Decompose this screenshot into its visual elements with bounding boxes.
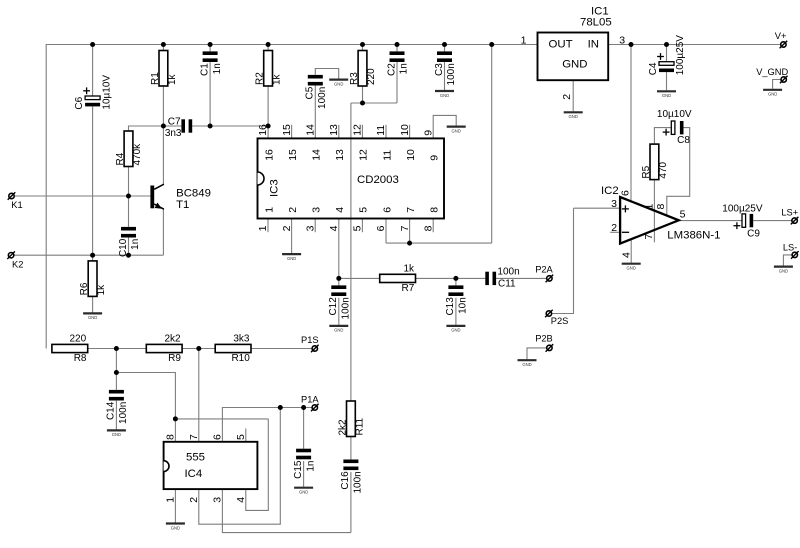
ground at IC3 pin 9 <box>447 127 466 134</box>
node P2S terminal <box>545 310 568 326</box>
node B junction R8/R9 <box>114 346 119 351</box>
node junction C6/R6/K2 <box>90 253 95 258</box>
svg-text:16: 16 <box>263 149 275 161</box>
svg-text:C13: C13 <box>445 297 456 316</box>
resistor R7 1k <box>380 263 416 294</box>
svg-text:R11: R11 <box>355 417 366 435</box>
wire C4 top <box>666 45 668 62</box>
svg-text:GND: GND <box>287 256 296 261</box>
svg-text:GND: GND <box>627 266 636 271</box>
node junction C6/V+ rail <box>90 42 95 47</box>
svg-text:8: 8 <box>655 204 667 210</box>
svg-text:1k: 1k <box>96 284 107 296</box>
svg-text:GND: GND <box>562 59 587 71</box>
svg-text:GND: GND <box>451 328 460 333</box>
wire IC3 pin 15 stub <box>291 125 293 139</box>
svg-text:15: 15 <box>287 149 299 161</box>
wire IC3 pin 5 stub <box>361 219 363 233</box>
capacitor C11 100n <box>485 266 519 289</box>
wire C5 bottom to IC3 pin 14 <box>314 85 316 138</box>
svg-text:7: 7 <box>399 225 411 231</box>
wire V+ rail from top-left corner to IC1 pin 1 <box>46 45 537 349</box>
svg-text:1k: 1k <box>272 73 283 85</box>
capacitor C2 1n <box>386 51 409 76</box>
wire IC3 pin 12 stub <box>361 125 363 139</box>
wire C5 top to ground elbow <box>315 69 338 79</box>
node junction R2/V+ rail <box>266 42 271 47</box>
op-amp U IC1 78L05 regulator <box>538 6 612 81</box>
node junction R7/C13/C11 <box>453 276 458 281</box>
node junction R1/V+ rail <box>161 42 166 47</box>
svg-text:1k: 1k <box>403 263 415 274</box>
wire P2B to ground <box>527 348 546 359</box>
svg-text:R5: R5 <box>641 165 652 178</box>
svg-text:6: 6 <box>375 225 387 231</box>
ground at C12 <box>329 326 348 333</box>
svg-text:2: 2 <box>561 94 573 100</box>
svg-text:1: 1 <box>263 207 275 213</box>
svg-text:R3: R3 <box>349 72 360 85</box>
wire IC3 pin 4 down to R7 node <box>338 219 340 286</box>
node B2 junction C14 <box>114 370 119 375</box>
wire C12 bottom to ground <box>338 298 340 325</box>
wire IC2 pin 3 input <box>574 207 621 209</box>
node junction R3/V+ rail <box>360 42 365 47</box>
wire R7 line left <box>339 277 380 279</box>
svg-text:GND: GND <box>452 128 461 133</box>
svg-text:IC4: IC4 <box>185 468 203 480</box>
svg-text:555: 555 <box>186 452 205 464</box>
svg-text:12: 12 <box>352 124 364 136</box>
svg-text:GND: GND <box>440 93 449 98</box>
svg-text:P2A: P2A <box>535 264 553 274</box>
transistor T1 BC849 <box>150 184 211 211</box>
node junction C7/R1/R4/collector <box>161 124 166 129</box>
pin 1 label of IC1 <box>521 35 527 47</box>
wire R9 to node C <box>182 348 199 350</box>
svg-text:15: 15 <box>281 124 293 136</box>
wire R6 top <box>92 255 94 261</box>
svg-text:100n: 100n <box>497 266 519 277</box>
svg-text:220: 220 <box>366 68 377 85</box>
wire node B down <box>115 349 117 373</box>
wire IC3 pin 7 down <box>409 219 411 244</box>
wire IC3 pin 10 stub <box>409 125 411 139</box>
svg-text:470: 470 <box>658 161 669 178</box>
wire C4 bottom to ground <box>666 72 668 90</box>
svg-text:GND: GND <box>522 362 531 367</box>
svg-text:C9: C9 <box>747 229 760 240</box>
node junction C1/V+ rail <box>208 42 213 47</box>
svg-text:GND: GND <box>779 268 788 273</box>
svg-text:4: 4 <box>334 207 346 213</box>
svg-text:1k: 1k <box>167 73 178 85</box>
svg-text:8: 8 <box>422 225 434 231</box>
capacitor C15 1n <box>293 449 316 479</box>
wire IC3 pin 1 stub <box>267 219 269 233</box>
svg-text:2k2: 2k2 <box>164 333 181 344</box>
node K1 terminal <box>8 192 23 210</box>
svg-text:3n3: 3n3 <box>165 128 182 139</box>
wire R3 bottom to node A <box>362 86 364 103</box>
svg-text:GND: GND <box>569 114 578 119</box>
svg-text:12: 12 <box>358 149 370 161</box>
svg-text:R8: R8 <box>74 353 87 364</box>
svg-text:IC3: IC3 <box>268 179 280 197</box>
wire R8 to node B <box>88 348 117 350</box>
wire node B to R9 <box>116 348 146 350</box>
svg-text:IN: IN <box>588 38 599 50</box>
node A junction R3/C2/beep <box>360 101 365 106</box>
wire IC3 pin 13 stub <box>338 125 340 139</box>
svg-text:9: 9 <box>429 155 441 161</box>
svg-text:100n: 100n <box>118 402 129 424</box>
wire node A horizontal <box>351 102 397 104</box>
svg-text:3: 3 <box>611 198 617 210</box>
node V+ terminal <box>775 31 787 48</box>
wire pins 4/8 net horizontal <box>175 418 268 420</box>
op-amp U IC2 LM386N-1 <box>601 185 720 258</box>
svg-text:470k: 470k <box>132 143 143 166</box>
wire IC2 pin 6 supply <box>630 45 632 203</box>
svg-text:10: 10 <box>405 149 417 161</box>
svg-text:R4: R4 <box>115 152 126 165</box>
svg-text:7: 7 <box>188 434 200 440</box>
wire C2 top <box>396 45 398 52</box>
capacitor C4 100u25V electrolytic <box>648 35 686 76</box>
svg-text:9: 9 <box>422 130 434 136</box>
svg-text:R6: R6 <box>79 282 90 295</box>
wire C14 bottom to ground <box>115 401 117 430</box>
node junction C1 bottom <box>208 124 213 129</box>
svg-text:5: 5 <box>352 225 364 231</box>
wire IC3 pin 2 to ground <box>291 219 293 254</box>
capacitor C14 100n <box>106 390 129 424</box>
wire C7 line right to pin 16 node <box>192 125 268 127</box>
wire pins 4/8 net right leg <box>246 419 268 511</box>
svg-text:11: 11 <box>375 125 387 136</box>
svg-text:GND: GND <box>112 432 121 437</box>
svg-text:6: 6 <box>620 190 632 196</box>
wire R4 top elbow to node C7 <box>129 126 164 131</box>
wire IC3 pin 8 stub <box>432 219 434 233</box>
wire IC1 pin 2 to ground <box>572 80 574 111</box>
wire C8 right to IC2 pin 8 <box>667 128 690 216</box>
op-amp U IC4 555 timer <box>164 434 258 503</box>
svg-text:P1S: P1S <box>301 335 319 345</box>
svg-text:C4: C4 <box>648 62 659 75</box>
wire C1 bottom to C7 line <box>209 62 211 126</box>
ground at IC2 pin 4 <box>622 264 641 271</box>
svg-text:C3: C3 <box>434 63 445 76</box>
svg-text:C2: C2 <box>386 63 397 76</box>
svg-text:GND: GND <box>334 81 343 86</box>
svg-text:5: 5 <box>235 434 247 440</box>
ground at C14 <box>107 430 126 437</box>
svg-text:6: 6 <box>212 434 224 440</box>
ground at C15 <box>294 488 313 495</box>
svg-text:K1: K1 <box>11 200 22 210</box>
svg-text:GND: GND <box>768 92 777 97</box>
ground at C5 <box>329 80 348 87</box>
wire node C to R10 <box>199 348 215 350</box>
node junction C15/P1A <box>301 405 306 410</box>
svg-text:14: 14 <box>304 124 316 136</box>
svg-text:C1: C1 <box>199 63 210 76</box>
wire R5 bottom to IC2 pin 1 / pin 7 stub <box>653 180 655 243</box>
svg-text:P2B: P2B <box>535 334 553 344</box>
wire C3 bottom to ground <box>444 62 446 90</box>
wire C3 top <box>444 45 446 52</box>
svg-text:C7: C7 <box>168 116 181 127</box>
resistor R3 220 <box>349 51 377 87</box>
svg-text:2: 2 <box>287 207 299 213</box>
wire IC2 pin 4 to ground <box>630 239 632 263</box>
resistor R4 470k <box>115 131 143 167</box>
svg-text:5: 5 <box>680 209 686 221</box>
svg-text:7: 7 <box>643 234 655 240</box>
wire IC3 pin 6 down <box>385 219 387 244</box>
svg-text:220: 220 <box>70 333 87 344</box>
resistor R6 1k <box>79 261 107 297</box>
svg-text:4: 4 <box>235 497 247 503</box>
svg-text:V+: V+ <box>775 31 787 41</box>
svg-text:GND: GND <box>662 93 671 98</box>
wire supply drop right of IC3 <box>491 45 493 244</box>
svg-text:1n: 1n <box>399 63 410 74</box>
wire T1 collector up to node C7 <box>162 126 164 184</box>
svg-text:1n: 1n <box>212 63 223 74</box>
resistor R11 2k2 <box>337 401 365 437</box>
pin 2 label of IC1 <box>561 94 573 100</box>
node P1S terminal <box>301 335 319 352</box>
svg-text:C11: C11 <box>498 279 516 290</box>
svg-text:IC2: IC2 <box>601 185 619 197</box>
svg-text:K2: K2 <box>12 259 23 269</box>
node junction C2/V+ rail <box>395 42 400 47</box>
node K2 terminal <box>7 251 23 269</box>
svg-text:OUT: OUT <box>549 38 573 50</box>
wire K1 line to T1 base <box>14 195 150 197</box>
wire C11 to P2A <box>496 277 546 279</box>
node junction pin16/R2/C7 <box>266 124 271 129</box>
wire P2S to IC2 pin 3 <box>552 208 574 313</box>
ground at C13 <box>446 326 465 333</box>
resistor R10 3k3 <box>215 333 251 364</box>
svg-text:8: 8 <box>429 207 441 213</box>
svg-text:C15: C15 <box>293 460 304 479</box>
svg-text:10n: 10n <box>458 297 469 314</box>
capacitor C9 100u25V electrolytic <box>722 204 763 240</box>
ground at R6 <box>83 313 102 320</box>
svg-text:GND: GND <box>334 328 343 333</box>
svg-text:P1A: P1A <box>301 394 319 404</box>
node junction IC3 pin7 <box>407 241 412 246</box>
svg-text:11: 11 <box>381 150 393 161</box>
node LS- terminal <box>783 242 799 258</box>
svg-text:V_GND: V_GND <box>756 67 788 77</box>
node junction base/R4/C10 <box>126 194 131 199</box>
wire IC4 pin 8 <box>174 419 176 442</box>
node P1A terminal <box>301 394 319 411</box>
wire V_GND to ground <box>773 80 781 89</box>
capacitor C16 100n <box>340 460 363 494</box>
ground at IC4 pin 1 <box>166 524 185 531</box>
svg-text:C12: C12 <box>328 297 339 316</box>
capacitor C13 10n <box>445 285 468 315</box>
svg-text:1n: 1n <box>305 461 316 472</box>
wire IC3 pin 3 stub <box>314 219 316 233</box>
node P2A terminal <box>535 264 553 282</box>
svg-text:3: 3 <box>619 35 625 47</box>
wire K2 line to T1 emitter <box>14 254 163 256</box>
wire C9 to LS+ <box>753 220 792 222</box>
svg-text:2k2: 2k2 <box>337 419 348 436</box>
node P2B terminal <box>535 334 553 352</box>
wire C15 top <box>303 408 305 449</box>
resistor R5 470 <box>641 144 669 180</box>
capacitor C10 1n <box>118 227 141 257</box>
svg-text:C5: C5 <box>305 86 316 99</box>
wire IC2 pin 2 stub <box>610 231 620 233</box>
ground at V_GND <box>763 90 782 97</box>
svg-text:4: 4 <box>620 252 632 258</box>
capacitor C1 1n <box>199 51 222 76</box>
node junction C3/V+ rail <box>442 42 447 47</box>
wire IC4 pin 6 up to P1A line <box>222 408 311 442</box>
svg-text:1: 1 <box>257 225 269 231</box>
ground at LS- <box>774 267 793 274</box>
wire IC4 pin 2 to P1A net <box>199 408 280 525</box>
node C junction R9/R10/IC4 pin7 <box>196 346 201 351</box>
wire IC2 output pin 5 to C9 <box>679 220 742 222</box>
node junction C4 supply <box>664 42 669 47</box>
svg-text:T1: T1 <box>176 199 189 211</box>
wire R6 bottom to ground <box>92 296 94 312</box>
wire R1 bottom to node C7 <box>162 86 164 126</box>
node junction IC4 pin2 net/P1A <box>278 405 283 410</box>
wire C2 bottom <box>396 62 398 103</box>
wire C1 top <box>209 45 211 52</box>
svg-text:3: 3 <box>311 207 323 213</box>
node junction C10/K2 <box>126 253 131 258</box>
resistor R9 2k2 <box>146 333 182 364</box>
svg-text:100µ25V: 100µ25V <box>675 35 686 76</box>
svg-text:C16: C16 <box>340 471 351 490</box>
svg-text:3k3: 3k3 <box>233 333 250 344</box>
ground at IC3 pin 2 <box>282 254 301 261</box>
svg-text:100n: 100n <box>317 87 328 109</box>
capacitor C5 100n <box>305 75 328 109</box>
node junction supply drop/V+ rail <box>489 42 494 47</box>
svg-text:4: 4 <box>328 225 340 231</box>
svg-text:3: 3 <box>304 225 316 231</box>
svg-text:100n: 100n <box>353 471 364 493</box>
wire R7 line right to C11 <box>416 277 486 279</box>
svg-text:3: 3 <box>212 497 224 503</box>
wire node B2 to C14 <box>115 373 117 390</box>
wire T1 emitter down to K2 line <box>162 209 164 255</box>
wire LS- to ground <box>783 255 792 266</box>
node junction IC3 pin4/R7/C12 <box>336 276 341 281</box>
wire C7 line left <box>163 125 181 127</box>
svg-text:BC849: BC849 <box>176 188 211 200</box>
svg-text:GND: GND <box>88 315 97 320</box>
svg-text:14: 14 <box>311 149 323 161</box>
capacitor C8 10u10V electrolytic <box>657 109 692 146</box>
capacitor C12 100n <box>328 285 351 319</box>
wire C6 bottom to K2 line <box>92 106 94 255</box>
wire C10 bottom to K2 line <box>128 237 130 255</box>
svg-text:7: 7 <box>405 207 417 213</box>
wire beeper feed vertical (node A to R11) <box>350 103 352 401</box>
ground at C4 <box>657 91 676 98</box>
wire IC4 pin 7 up to node C <box>198 349 200 442</box>
svg-text:GND: GND <box>171 525 180 530</box>
svg-text:1: 1 <box>165 497 177 503</box>
wire R3 top <box>362 45 364 51</box>
svg-text:100µ25V: 100µ25V <box>722 204 763 215</box>
capacitor C6 10u10V electrolytic <box>74 75 112 110</box>
svg-text:R7: R7 <box>402 283 415 294</box>
svg-text:P2S: P2S <box>551 316 569 326</box>
wire R1 top <box>162 45 164 51</box>
op-amp U IC3 CD2003 <box>257 124 444 231</box>
svg-text:C8: C8 <box>677 135 690 146</box>
svg-text:13: 13 <box>334 149 346 161</box>
ground at C3 <box>435 91 454 98</box>
wire IC4 pin 1 to ground <box>174 489 176 522</box>
node junction IC4 pin8 net <box>173 416 178 421</box>
wire R2 bottom through node to IC3 pin 16 <box>267 86 269 138</box>
node junction IC2 pin6 supply <box>629 42 634 47</box>
svg-text:GND: GND <box>299 490 308 495</box>
svg-text:1n: 1n <box>130 239 141 250</box>
wire IC4 pin 5 stub <box>245 429 247 442</box>
wire C15 bottom to ground <box>303 461 305 487</box>
ground at P2B <box>518 360 537 367</box>
svg-text:R2: R2 <box>255 72 266 85</box>
svg-text:R10: R10 <box>231 353 250 364</box>
capacitor C7 3n3 <box>165 116 192 139</box>
node V_GND terminal <box>756 67 788 83</box>
svg-text:100n: 100n <box>446 63 457 85</box>
resistor R1 1k <box>150 51 178 87</box>
svg-text:8: 8 <box>165 434 177 440</box>
wire C16 bottom <box>350 472 352 533</box>
wire IC3 pin 11 stub <box>385 125 387 139</box>
wire R11 to C16 <box>350 437 352 460</box>
svg-text:10µ10V: 10µ10V <box>101 75 112 110</box>
wire IC4 pin 3 output <box>222 489 351 532</box>
wire C13 bottom to ground <box>455 298 457 325</box>
svg-text:5: 5 <box>358 207 370 213</box>
wire R10 to P1S <box>252 348 312 350</box>
svg-text:C14: C14 <box>106 401 117 420</box>
wire R5 top to C8 <box>654 128 671 145</box>
wire C13 top <box>455 278 457 285</box>
svg-text:LS+: LS+ <box>781 207 798 217</box>
svg-text:R9: R9 <box>168 353 181 364</box>
svg-text:13: 13 <box>328 124 340 136</box>
svg-text:100n: 100n <box>341 297 352 319</box>
svg-text:2: 2 <box>281 225 293 231</box>
svg-text:2: 2 <box>188 497 200 503</box>
svg-text:10µ10V: 10µ10V <box>657 109 692 120</box>
wire C6 top <box>92 45 94 97</box>
wire IC3 pin 9 to ground <box>433 115 456 138</box>
resistor R8 220 <box>52 333 88 364</box>
